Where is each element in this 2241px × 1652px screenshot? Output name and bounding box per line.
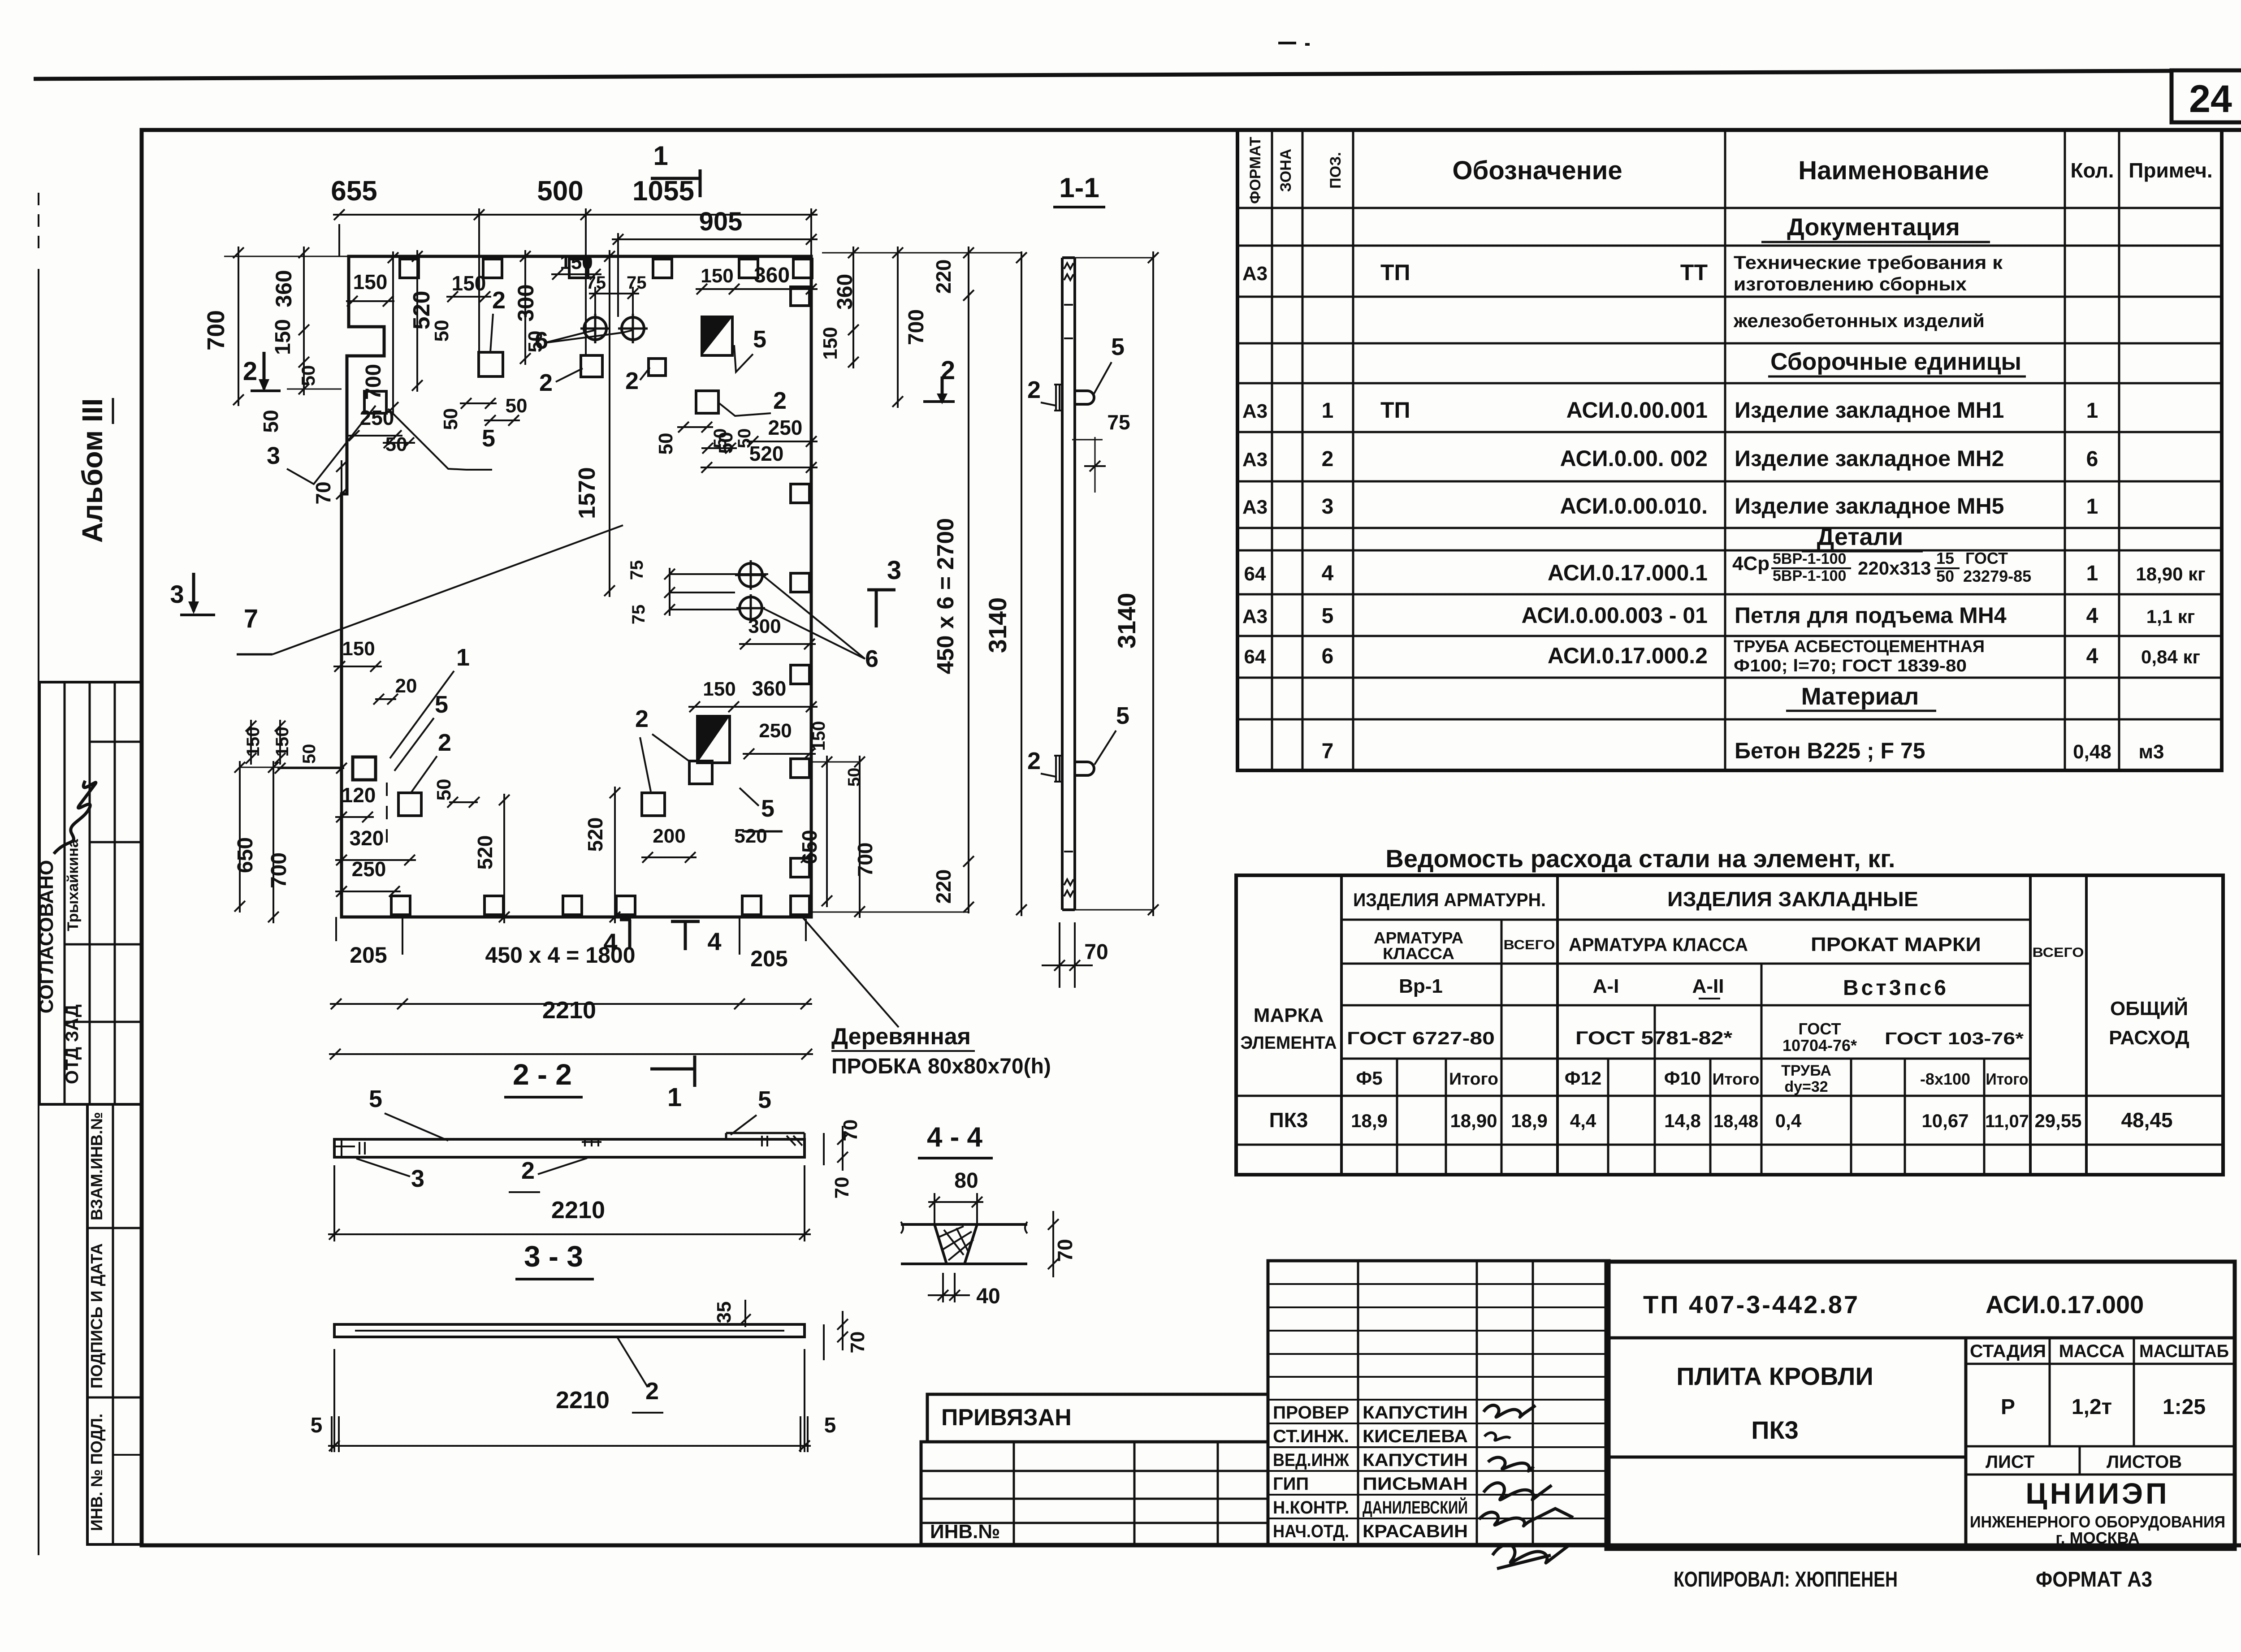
svg-text:ПОДПИСЬ И ДАТА: ПОДПИСЬ И ДАТА xyxy=(87,1243,106,1388)
svg-text:700: 700 xyxy=(203,310,229,350)
svg-text:64: 64 xyxy=(1244,563,1266,585)
svg-text:ВСЕГО: ВСЕГО xyxy=(1504,938,1555,952)
svg-text:А-II: А-II xyxy=(1692,975,1724,997)
inner embedded square lower-right xyxy=(689,761,712,784)
svg-text:А3: А3 xyxy=(1242,400,1268,422)
top paper edge line xyxy=(34,71,2172,79)
section mark 1 at plan bottom xyxy=(650,1068,695,1071)
dim 2210 bar 3-3 xyxy=(333,1349,335,1452)
column bottom break detail xyxy=(1064,851,1073,852)
dim 300 rot xyxy=(524,250,526,365)
svg-text:АСИ.0.17.000: АСИ.0.17.000 xyxy=(1986,1290,2144,1319)
svg-text:ПК3: ПК3 xyxy=(1751,1416,1799,1444)
svg-text:650: 650 xyxy=(798,830,821,865)
svg-text:Итого: Итого xyxy=(1449,1070,1498,1089)
dim 40 xyxy=(942,1273,944,1302)
inner embedded square MN2 top-right xyxy=(696,391,718,413)
svg-text:75: 75 xyxy=(627,560,647,580)
svg-text:205: 205 xyxy=(350,943,387,968)
svg-text:20: 20 xyxy=(395,675,417,697)
square C 50 dims xyxy=(677,426,713,428)
svg-text:7: 7 xyxy=(244,604,258,633)
svg-text:2: 2 xyxy=(243,357,257,386)
svg-text:250: 250 xyxy=(759,720,792,742)
svg-text:ТТ: ТТ xyxy=(1680,260,1708,285)
svg-text:Бетон В225 ; F 75: Бетон В225 ; F 75 xyxy=(1735,738,1925,763)
flag symbol MN5 top xyxy=(702,317,732,355)
svg-text:250: 250 xyxy=(352,857,386,881)
svg-text:ЛИСТОВ: ЛИСТОВ xyxy=(2107,1452,2182,1472)
dim chain 220 450x6 220 xyxy=(968,247,969,913)
svg-text:1: 1 xyxy=(653,141,668,171)
dim chain 655 500 1055 xyxy=(338,224,340,256)
svg-text:ТП: ТП xyxy=(1380,260,1410,285)
svg-text:ЛИСТ: ЛИСТ xyxy=(1986,1452,2034,1472)
inner embedded square left edge lower xyxy=(353,757,376,780)
svg-text:150: 150 xyxy=(819,327,841,359)
scan dash marks top xyxy=(1278,42,1296,44)
svg-text:205: 205 xyxy=(750,946,787,971)
wooden plug leader xyxy=(802,917,899,1027)
svg-text:0,4: 0,4 xyxy=(1775,1110,1802,1131)
svg-text:ИНВ. № ПОДЛ.: ИНВ. № ПОДЛ. xyxy=(87,1414,106,1531)
svg-text:ФОРМАТ А3: ФОРМАТ А3 xyxy=(2036,1568,2152,1591)
svg-text:ОТД ЗАД: ОТД ЗАД xyxy=(62,1004,82,1084)
svg-text:ПК3: ПК3 xyxy=(1269,1108,1308,1132)
svg-text:35: 35 xyxy=(713,1302,735,1323)
svg-text:150: 150 xyxy=(701,265,733,287)
dim 20 lower left xyxy=(375,698,396,700)
bar 2-2 mid notch xyxy=(584,1139,586,1146)
dim 70 section 4-4 xyxy=(1052,1211,1054,1277)
svg-text:ГОСТ: ГОСТ xyxy=(1965,549,2008,567)
tube circles mid (pos 6) xyxy=(739,563,762,587)
svg-text:Петля для подъема МН4: Петля для подъема МН4 xyxy=(1735,603,2007,628)
svg-text:5: 5 xyxy=(758,1086,771,1113)
svg-text:Материал: Материал xyxy=(1801,683,1919,710)
page number box 24 xyxy=(2172,70,2241,122)
svg-text:18,9: 18,9 xyxy=(1511,1110,1548,1131)
svg-text:2: 2 xyxy=(635,705,649,732)
svg-text:2: 2 xyxy=(521,1157,535,1184)
svg-text:2: 2 xyxy=(1027,376,1041,403)
list listov row xyxy=(1966,1445,2235,1448)
svg-text:Кол.: Кол. xyxy=(2070,159,2114,182)
svg-text:ГОСТ 5781-82*: ГОСТ 5781-82* xyxy=(1575,1027,1733,1048)
signatures squiggles xyxy=(1484,1405,1536,1417)
svg-text:АСИ.0.00. 002: АСИ.0.00. 002 xyxy=(1560,446,1708,471)
svg-text:50: 50 xyxy=(845,768,864,787)
plan slab outline xyxy=(342,256,811,917)
svg-text:А3: А3 xyxy=(1242,605,1268,627)
section 2-2 bar xyxy=(334,1139,805,1157)
svg-text:655: 655 xyxy=(331,176,377,207)
title block main xyxy=(1606,1262,2235,1549)
svg-text:360: 360 xyxy=(271,270,296,307)
left dim 700 xyxy=(238,247,239,406)
svg-text:Наименование: Наименование xyxy=(1798,156,1989,185)
inner embedded square lower-mid xyxy=(642,793,665,816)
svg-text:50: 50 xyxy=(431,320,453,342)
svg-text:23279-85: 23279-85 xyxy=(1963,567,2031,585)
svg-text:Ф12: Ф12 xyxy=(1565,1068,1602,1089)
svg-text:50: 50 xyxy=(710,428,730,449)
svg-text:0,84 кг: 0,84 кг xyxy=(2141,646,2200,667)
privyazan lower table xyxy=(921,1442,1268,1544)
svg-text:5: 5 xyxy=(435,691,448,718)
svg-text:Детали: Детали xyxy=(1817,523,1903,550)
svg-text:70: 70 xyxy=(1053,1239,1077,1262)
right dim 700 xyxy=(897,247,899,408)
svg-text:ПРИВЯЗАН: ПРИВЯЗАН xyxy=(941,1405,1072,1431)
svg-text:50: 50 xyxy=(655,433,677,455)
svg-text:70: 70 xyxy=(839,1120,861,1142)
svg-text:5ВР-1-100: 5ВР-1-100 xyxy=(1773,567,1846,584)
dim 520 rot xyxy=(416,250,418,392)
inner embedded square top-mid xyxy=(581,355,602,377)
dim 150 lower left xyxy=(333,666,382,667)
svg-text:29,55: 29,55 xyxy=(2034,1110,2081,1131)
dim 75 section xyxy=(1072,439,1103,441)
section 4-4 slab lines xyxy=(901,1223,934,1226)
svg-text:ЦНИИЭП: ЦНИИЭП xyxy=(2025,1477,2169,1510)
svg-text:Примеч.: Примеч. xyxy=(2129,159,2212,182)
svg-text:ПРОБКА 80х80х70(h): ПРОБКА 80х80х70(h) xyxy=(831,1055,1051,1078)
svg-text:2210: 2210 xyxy=(542,997,596,1024)
svg-text:ПРОКАТ МАРКИ: ПРОКАТ МАРКИ xyxy=(1811,934,1981,956)
lower left dims 650 700 rot xyxy=(239,761,241,912)
svg-text:КАПУСТИН: КАПУСТИН xyxy=(1363,1450,1468,1470)
dim 905 xyxy=(617,233,619,317)
left paper edge line xyxy=(38,269,39,1555)
dashed line lower left xyxy=(386,783,388,852)
dim 205 1800 205 xyxy=(335,917,337,941)
svg-text:1055: 1055 xyxy=(632,176,694,207)
privyazan box xyxy=(927,1394,1268,1442)
svg-text:ПОЗ.: ПОЗ. xyxy=(1327,152,1344,189)
dim 150 above square A xyxy=(446,296,491,298)
svg-text:700: 700 xyxy=(853,843,877,877)
svg-text:120: 120 xyxy=(342,783,376,807)
section marks 4 below plan xyxy=(620,918,631,921)
flag symbol MN5 lower xyxy=(697,716,730,763)
svg-text:железобетонных изделий: железобетонных изделий xyxy=(1733,310,1985,331)
svg-text:Ф5: Ф5 xyxy=(1356,1068,1382,1089)
dim 75 75 mid right xyxy=(670,573,768,575)
flag top dims 150 360 xyxy=(696,288,818,290)
dim 3140 right of section xyxy=(1152,251,1154,916)
svg-text:МАСШТАБ: МАСШТАБ xyxy=(2139,1341,2229,1361)
svg-text:СТ.ИНЖ.: СТ.ИНЖ. xyxy=(1273,1427,1349,1446)
lower mid dims 520 520 xyxy=(503,794,505,923)
svg-text:5: 5 xyxy=(753,326,766,353)
svg-text:150: 150 xyxy=(703,678,735,700)
svg-text:1:25: 1:25 xyxy=(2163,1395,2206,1419)
svg-text:4 - 4: 4 - 4 xyxy=(927,1122,983,1153)
right dims 360 150 chain xyxy=(852,247,854,368)
svg-text:А3: А3 xyxy=(1242,496,1268,518)
svg-text:Ведомость расхода стали: Ведомость расхода стали на элемент, кг. xyxy=(1385,844,1895,873)
svg-text:ТП: ТП xyxy=(1380,398,1410,423)
svg-text:ВЗАМ.ИНВ.№: ВЗАМ.ИНВ.№ xyxy=(87,1112,106,1220)
svg-text:МАССА: МАССА xyxy=(2059,1341,2125,1361)
steel table inner verticals xyxy=(1501,920,1503,1175)
bar 2-2 left hatch detail xyxy=(359,1142,360,1155)
svg-text:5: 5 xyxy=(761,795,774,822)
dim 70 bar 2-2 xyxy=(823,1133,825,1165)
svg-text:150: 150 xyxy=(809,721,829,751)
svg-text:4: 4 xyxy=(1322,562,1334,585)
svg-text:АСИ.0.00.010.: АСИ.0.00.010. xyxy=(1560,493,1708,519)
svg-text:Ф10: Ф10 xyxy=(1664,1068,1701,1089)
dim 35 xyxy=(744,1300,746,1327)
svg-text:ПЛИТА КРОВЛИ: ПЛИТА КРОВЛИ xyxy=(1676,1362,1873,1390)
flag lower dims 150 360 250 xyxy=(688,706,818,708)
svg-text:СТАДИЯ: СТАДИЯ xyxy=(1970,1341,2046,1361)
svg-text:520: 520 xyxy=(749,442,784,465)
svg-text:2: 2 xyxy=(625,368,639,394)
svg-text:АРМАТУРА КЛАССА: АРМАТУРА КЛАССА xyxy=(1569,934,1748,955)
svg-text:3 - 3: 3 - 3 xyxy=(524,1240,583,1273)
svg-text:2: 2 xyxy=(773,387,787,414)
svg-text:ФОРМАТ: ФОРМАТ xyxy=(1247,137,1264,204)
svg-text:70: 70 xyxy=(311,481,335,504)
svg-text:1-1: 1-1 xyxy=(1059,173,1099,203)
svg-text:Обозначение: Обозначение xyxy=(1452,156,1622,185)
plan embedded squares bottom edge xyxy=(391,896,410,915)
svg-text:360: 360 xyxy=(833,274,857,310)
svg-text:1,1 кг: 1,1 кг xyxy=(2146,606,2195,627)
svg-text:15: 15 xyxy=(1936,549,1954,567)
svg-text:КРАСАВИН: КРАСАВИН xyxy=(1363,1522,1468,1541)
svg-text:5: 5 xyxy=(824,1414,836,1437)
svg-text:СОГЛАСОВАНО: СОГЛАСОВАНО xyxy=(35,860,57,1014)
svg-text:80: 80 xyxy=(954,1169,978,1193)
svg-text:Н.КОНТР.: Н.КОНТР. xyxy=(1273,1498,1349,1518)
svg-text:5ВР-1-100: 5ВР-1-100 xyxy=(1773,550,1846,567)
section 3-3 bar xyxy=(334,1324,805,1337)
svg-text:520: 520 xyxy=(734,825,767,847)
svg-text:700: 700 xyxy=(267,852,291,888)
svg-text:1: 1 xyxy=(456,644,470,671)
svg-text:ПРОВЕР: ПРОВЕР xyxy=(1273,1403,1349,1423)
svg-text:70: 70 xyxy=(847,1332,869,1354)
plan embedded squares top edge xyxy=(400,259,419,278)
inner embedded square top small xyxy=(649,359,666,376)
svg-text:3: 3 xyxy=(1322,495,1334,519)
svg-text:905: 905 xyxy=(699,207,743,236)
svg-text:0,48: 0,48 xyxy=(2073,741,2111,763)
svg-text:КАПУСТИН: КАПУСТИН xyxy=(1363,1403,1468,1423)
svg-text:МАРКА: МАРКА xyxy=(1254,1004,1324,1026)
svg-text:360: 360 xyxy=(754,264,790,287)
svg-text:24: 24 xyxy=(2189,78,2232,121)
svg-text:50: 50 xyxy=(433,779,455,801)
svg-text:ВСЕГО: ВСЕГО xyxy=(2033,945,2084,960)
svg-text:Трыхайкина: Трыхайкина xyxy=(65,839,82,931)
svg-text:650: 650 xyxy=(234,837,257,873)
svg-text:-8х100: -8х100 xyxy=(1920,1070,1970,1088)
svg-text:изготовлению сборных: изготовлению сборных xyxy=(1734,273,1967,294)
svg-text:5: 5 xyxy=(1111,333,1125,360)
svg-text:м3: м3 xyxy=(2138,741,2164,763)
svg-text:1,2т: 1,2т xyxy=(2072,1395,2112,1419)
svg-text:ТРУБА: ТРУБА xyxy=(1781,1062,1831,1079)
svg-text:КОПИРОВАЛ: ХЮППЕНЕН: КОПИРОВАЛ: ХЮППЕНЕН xyxy=(1674,1568,1898,1591)
steel table outer xyxy=(1236,875,2223,1175)
plan embedded squares right edge xyxy=(791,287,809,306)
left stamp lower block xyxy=(87,1104,142,1544)
left stamp upper block xyxy=(39,682,142,1104)
dim 300 mid right xyxy=(739,643,816,645)
svg-text:75: 75 xyxy=(1107,411,1130,434)
svg-text:А3: А3 xyxy=(1242,263,1268,285)
svg-text:220: 220 xyxy=(932,869,955,904)
svg-text:18,9: 18,9 xyxy=(1351,1110,1388,1131)
inner dim 700 xyxy=(392,251,394,414)
svg-text:5: 5 xyxy=(1116,702,1129,729)
svg-text:ИЗДЕЛИЯ ЗАКЛАДНЫЕ: ИЗДЕЛИЯ ЗАКЛАДНЫЕ xyxy=(1667,887,1918,911)
svg-text:150: 150 xyxy=(353,270,388,294)
svg-text:Альбом III: Альбом III xyxy=(76,398,108,543)
svg-text:4: 4 xyxy=(707,927,721,956)
svg-text:150: 150 xyxy=(452,272,486,295)
svg-text:300: 300 xyxy=(748,615,781,637)
svg-text:Вр-1: Вр-1 xyxy=(1399,975,1443,997)
svg-text:40: 40 xyxy=(976,1284,1000,1308)
svg-text:Ф100; l=70; ГОСТ 1839-80: Ф100; l=70; ГОСТ 1839-80 xyxy=(1734,657,1967,675)
svg-text:Итого: Итого xyxy=(1986,1070,2029,1088)
svg-text:7: 7 xyxy=(1322,740,1334,763)
notch dim 250 xyxy=(348,435,402,437)
svg-text:Изделие закладное МН5: Изделие закладное МН5 xyxy=(1735,493,2004,519)
steel table header lines xyxy=(1341,919,2030,921)
dims 200 520 lower right xyxy=(641,856,697,858)
svg-text:Сборочные единицы: Сборочные единицы xyxy=(1770,348,2021,375)
svg-text:75: 75 xyxy=(586,273,606,293)
svg-text:ТП 407-3-442.87: ТП 407-3-442.87 xyxy=(1643,1290,1860,1319)
svg-text:220: 220 xyxy=(932,259,955,294)
svg-text:70: 70 xyxy=(831,1177,853,1199)
svg-text:700: 700 xyxy=(362,364,385,400)
inner embedded square left edge upper xyxy=(364,391,386,413)
svg-text:ГОСТ: ГОСТ xyxy=(1798,1020,1841,1038)
svg-text:4: 4 xyxy=(2086,604,2098,628)
svg-text:Изделие закладное МН2: Изделие закладное МН2 xyxy=(1735,446,2004,471)
svg-text:220х313: 220х313 xyxy=(1858,558,1931,579)
svg-text:50: 50 xyxy=(440,408,462,430)
svg-text:320: 320 xyxy=(350,826,384,850)
left edge chain 150 150 50 xyxy=(250,720,252,765)
svg-text:А-I: А-I xyxy=(1593,975,1619,997)
svg-text:ЭЛЕМЕНТА: ЭЛЕМЕНТА xyxy=(1241,1033,1337,1053)
stadiya massa masshtab xyxy=(1966,1363,2235,1365)
svg-text:150: 150 xyxy=(342,638,375,660)
svg-text:250: 250 xyxy=(768,416,803,439)
svg-text:А3: А3 xyxy=(1242,449,1268,471)
svg-text:10,67: 10,67 xyxy=(1921,1110,1968,1131)
svg-text:3: 3 xyxy=(411,1165,424,1192)
svg-text:520: 520 xyxy=(584,817,607,852)
svg-text:10704-76*: 10704-76* xyxy=(1782,1036,1857,1055)
svg-text:ЗОНА: ЗОНА xyxy=(1277,149,1294,192)
svg-text:Вст3пс6: Вст3пс6 xyxy=(1843,976,1949,1000)
svg-text:50: 50 xyxy=(299,744,319,764)
left dims 360 150 xyxy=(303,247,305,395)
svg-text:2: 2 xyxy=(539,369,553,396)
column top break detail xyxy=(1064,304,1073,306)
inner embedded square lower-left xyxy=(398,793,421,816)
dim 2210 bar 2-2 xyxy=(333,1165,335,1241)
svg-text:3140: 3140 xyxy=(983,597,1012,653)
svg-text:4,4: 4,4 xyxy=(1570,1110,1596,1131)
svg-text:6: 6 xyxy=(1322,644,1334,668)
svg-text:6: 6 xyxy=(535,327,548,354)
svg-text:г. МОСКВА: г. МОСКВА xyxy=(2055,1529,2140,1547)
svg-text:500: 500 xyxy=(537,176,583,207)
svg-text:150: 150 xyxy=(243,727,263,757)
svg-text:18,48: 18,48 xyxy=(1713,1111,1758,1131)
svg-text:ДАНИЛЕВСКИЙ: ДАНИЛЕВСКИЙ xyxy=(1363,1497,1468,1518)
dim 1570 rot xyxy=(609,250,610,597)
svg-text:4Ср: 4Ср xyxy=(1732,553,1769,575)
svg-text:6: 6 xyxy=(2086,447,2098,471)
svg-text:Итого: Итого xyxy=(1713,1070,1760,1088)
svg-text:2: 2 xyxy=(1322,447,1334,471)
svg-text:1: 1 xyxy=(667,1083,682,1112)
svg-text:75: 75 xyxy=(627,273,647,293)
svg-text:5: 5 xyxy=(311,1414,323,1437)
dim 70 bar 3-3 xyxy=(823,1324,825,1360)
svg-text:4: 4 xyxy=(2086,644,2098,668)
lifting loop circles top (pos 6) xyxy=(584,317,606,340)
svg-text:КЛАССА: КЛАССА xyxy=(1383,944,1454,963)
svg-text:50: 50 xyxy=(1936,567,1954,585)
dim 3140 left of section xyxy=(1021,251,1022,916)
svg-text:520: 520 xyxy=(473,835,497,870)
svg-text:Деревянная: Деревянная xyxy=(831,1024,971,1050)
svg-text:2: 2 xyxy=(492,287,506,314)
bar 2-2 right lip xyxy=(725,1133,727,1139)
svg-text:5: 5 xyxy=(369,1085,382,1112)
svg-text:2: 2 xyxy=(645,1378,659,1405)
svg-text:АСИ.0.17.000.1: АСИ.0.17.000.1 xyxy=(1548,560,1708,585)
inner embedded square MN2 top-left xyxy=(479,352,503,376)
svg-text:1: 1 xyxy=(2086,562,2098,585)
dim 80 xyxy=(928,1201,983,1203)
svg-text:450 x 6 = 2700: 450 x 6 = 2700 xyxy=(933,518,959,674)
svg-text:ВЕД.ИНЖ: ВЕД.ИНЖ xyxy=(1273,1450,1350,1470)
svg-text:1570: 1570 xyxy=(574,467,600,519)
lower left dims 120 320 250 xyxy=(335,816,374,818)
svg-text:70: 70 xyxy=(1084,940,1108,964)
svg-text:Документация: Документация xyxy=(1787,214,1960,241)
svg-text:150: 150 xyxy=(273,727,292,757)
svg-text:18,90 кг: 18,90 кг xyxy=(2136,563,2205,584)
svg-text:2: 2 xyxy=(1027,748,1041,774)
svg-text:ГОСТ 103-76*: ГОСТ 103-76* xyxy=(1885,1029,2024,1048)
svg-text:ГИП: ГИП xyxy=(1273,1474,1309,1494)
svg-text:50: 50 xyxy=(506,395,528,417)
signature table xyxy=(1268,1261,1609,1544)
svg-text:3140: 3140 xyxy=(1112,593,1141,649)
svg-text:2210: 2210 xyxy=(551,1197,605,1224)
svg-text:6: 6 xyxy=(865,645,878,672)
wedge hatch xyxy=(939,1226,964,1237)
column hook bottom (loop 5) xyxy=(1075,762,1094,775)
svg-text:2: 2 xyxy=(438,729,451,756)
column hook top (loop 5) xyxy=(1075,391,1094,404)
